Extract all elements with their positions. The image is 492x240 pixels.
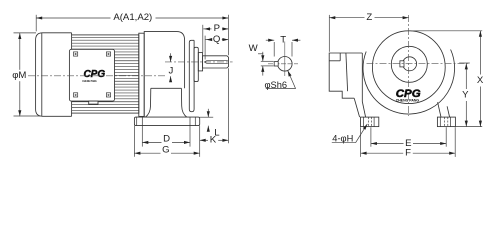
svg-text:φM: φM xyxy=(12,70,26,81)
svg-text:Z: Z xyxy=(366,12,372,23)
svg-text:K: K xyxy=(210,135,217,146)
svg-text:A(A1,A2): A(A1,A2) xyxy=(113,12,152,23)
svg-text:CHENG PANG: CHENG PANG xyxy=(82,79,97,83)
svg-text:F: F xyxy=(405,147,411,158)
svg-text:Y: Y xyxy=(462,90,469,101)
svg-text:T: T xyxy=(280,35,286,46)
svg-text:X: X xyxy=(477,75,484,86)
svg-text:J: J xyxy=(169,66,174,77)
svg-text:CHENG PANG: CHENG PANG xyxy=(396,98,420,102)
svg-text:G: G xyxy=(162,145,169,156)
svg-text:D: D xyxy=(163,134,170,145)
svg-text:4-φH: 4-φH xyxy=(332,134,353,144)
svg-text:Q: Q xyxy=(213,34,220,45)
svg-text:W: W xyxy=(249,43,259,54)
svg-text:P: P xyxy=(214,23,220,34)
